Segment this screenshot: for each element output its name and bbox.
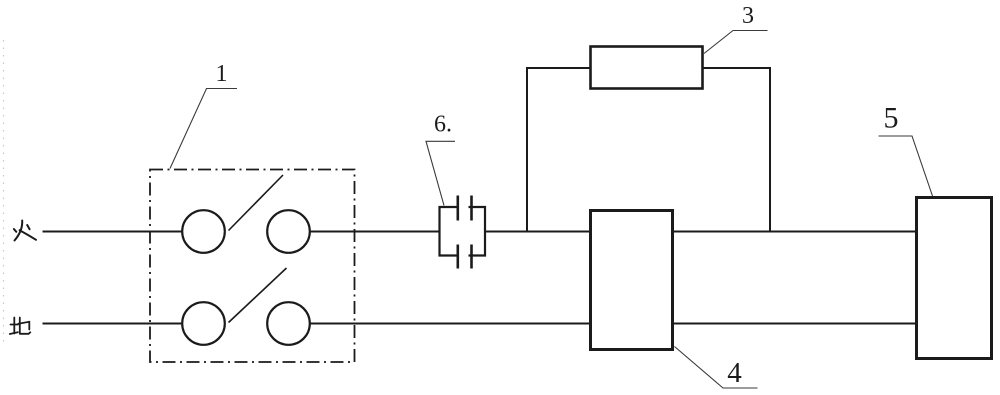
svg-text:1: 1	[216, 61, 228, 87]
switch contact circle bottom-left	[182, 302, 225, 345]
wire live from capacitor to block 4	[485, 231, 590, 233]
block 4	[591, 211, 673, 350]
wire feedback right horizontal	[703, 67, 772, 69]
capacitor unit 6 left bracket	[440, 207, 457, 256]
label 3 leader line	[704, 31, 768, 54]
wire feedback left vertical	[526, 67, 528, 232]
wire earth input	[43, 323, 183, 325]
switch contact circle top-right	[267, 210, 310, 253]
capacitor unit 6 right bracket	[469, 207, 486, 256]
wire live input	[43, 231, 183, 233]
label 1 leader line	[170, 89, 237, 169]
feedback block 3	[591, 47, 703, 89]
wire feedback left horizontal	[526, 67, 591, 69]
switch unit 1 dash-dot boundary box	[150, 170, 355, 363]
label 火 (live wire)	[14, 221, 36, 241]
switch arm top	[229, 175, 284, 231]
switch contact circle top-left	[182, 210, 225, 253]
capacitor bottom plates	[458, 245, 472, 269]
wire earth from switch to block 4	[310, 323, 591, 325]
capacitor top plates	[458, 196, 472, 221]
svg-text:5: 5	[884, 102, 899, 135]
wire feedback right vertical	[769, 67, 771, 232]
wire live from switch to capacitor 6	[310, 231, 440, 233]
svg-text:4: 4	[727, 357, 742, 389]
label 6 leader line	[426, 141, 455, 205]
svg-text:6.: 6.	[434, 112, 452, 138]
label 4 leader line	[675, 347, 758, 389]
svg-text:3: 3	[742, 3, 754, 29]
switch contact circle bottom-right	[267, 302, 310, 345]
wire earth from block 4 to block 5	[674, 323, 917, 325]
scan edge artifact dotted line	[3, 40, 5, 345]
wire live from block 4 to block 5	[674, 231, 917, 233]
label 5 leader line	[879, 136, 933, 196]
label 地 (earth wire)	[10, 318, 31, 335]
switch arm bottom	[229, 268, 287, 323]
block 5	[917, 198, 992, 359]
